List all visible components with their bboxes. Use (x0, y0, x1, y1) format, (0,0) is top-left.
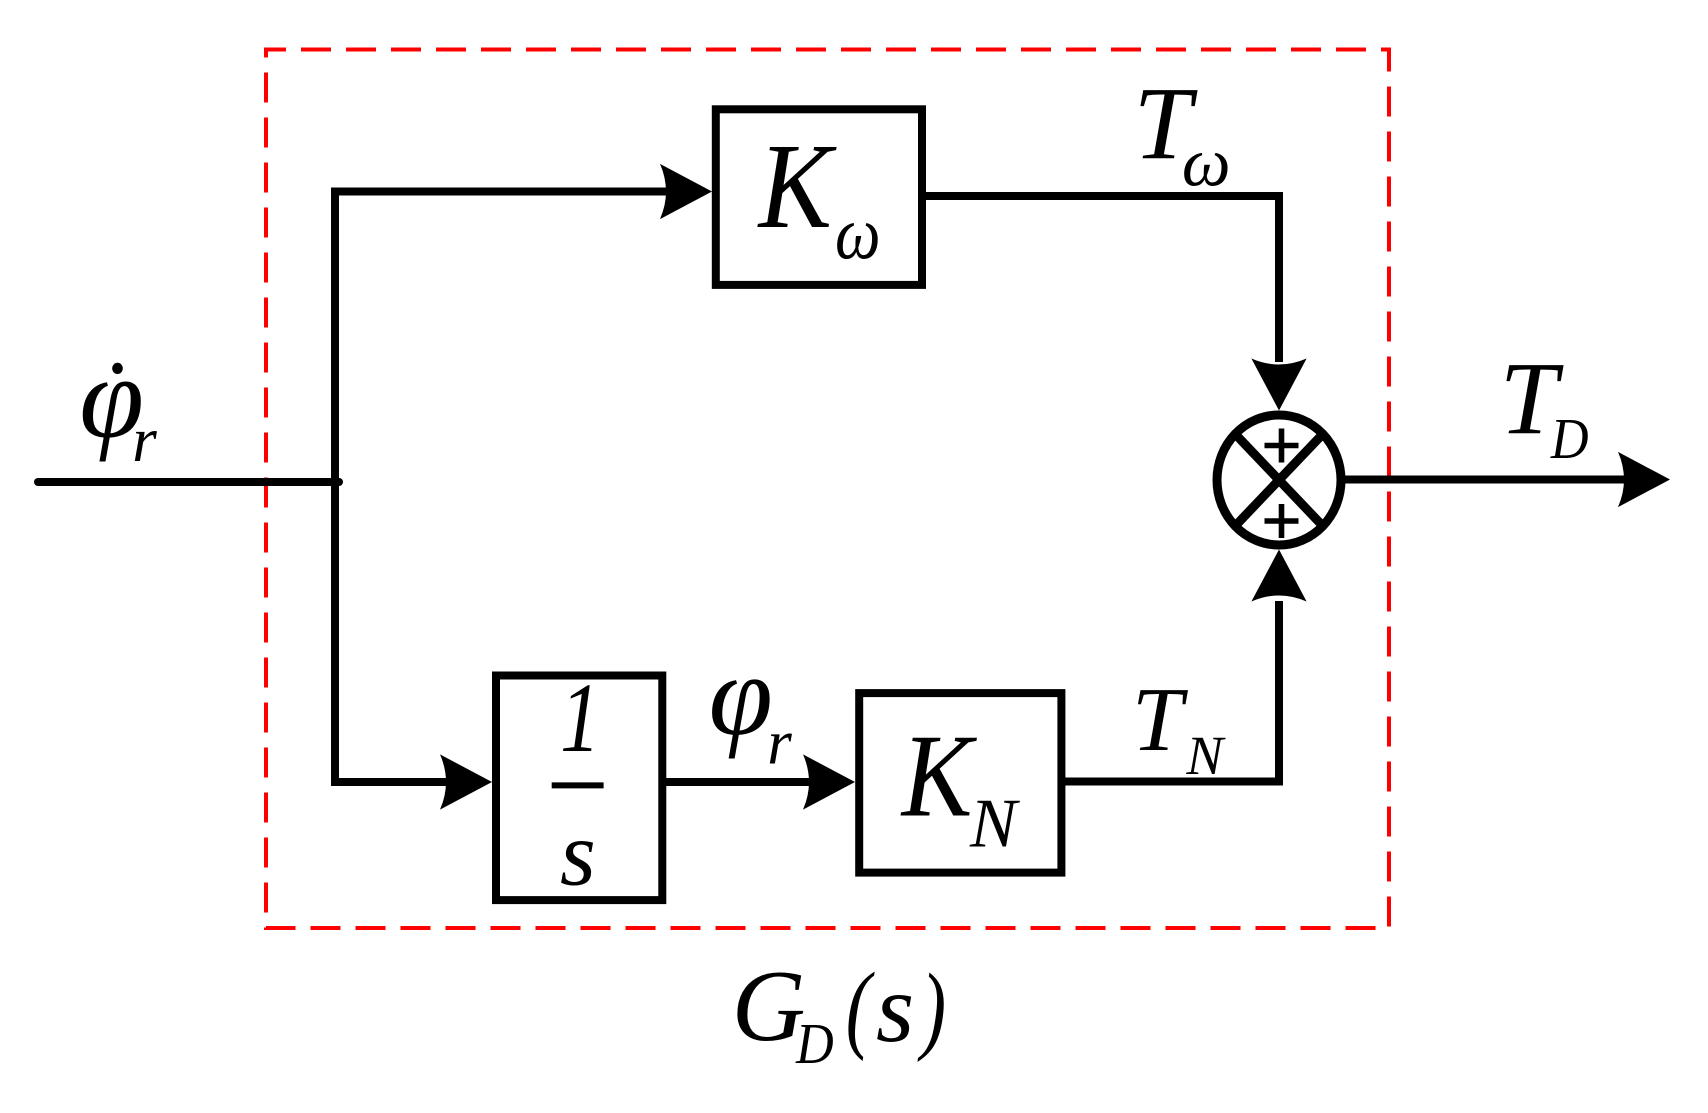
svg-text:T: T (1132, 669, 1188, 770)
arrowhead into K_N (803, 754, 855, 809)
svg-text:s: s (560, 802, 596, 904)
svg-text:K: K (900, 711, 977, 842)
svg-text:N: N (1185, 725, 1226, 786)
svg-text:N: N (969, 785, 1020, 862)
svg-text:r: r (767, 708, 792, 778)
wire: output T_D (1345, 476, 1624, 484)
arrowhead up into summing junction (1251, 550, 1306, 602)
svg-text:D: D (795, 1011, 834, 1075)
svg-text:): ) (917, 954, 946, 1063)
wire: 1/s output phi_r to K_N (666, 778, 809, 786)
svg-text:s: s (876, 955, 914, 1063)
svg-text:G: G (732, 950, 806, 1063)
summing junction circle (1217, 415, 1341, 545)
arrowhead into 1/s (440, 754, 492, 809)
block 1/s integrator (496, 676, 662, 901)
plus sign top (1265, 429, 1299, 463)
arrowhead output (1618, 452, 1670, 507)
block K_omega (716, 109, 922, 285)
plus sign bottom (1265, 504, 1299, 538)
wire: K_N output T_N up into summing junction (1065, 601, 1279, 782)
arrowhead down into summing junction (1251, 359, 1306, 411)
wire: branch node vertical with horizontals to K_omega and to 1/s (335, 192, 666, 783)
svg-text:r: r (132, 405, 157, 475)
svg-text:φ: φ (709, 632, 773, 760)
wire: K_omega output to summing junction (down) (922, 196, 1279, 362)
svg-text:K: K (757, 120, 837, 255)
svg-text:ω: ω (835, 193, 881, 276)
block K_N (859, 693, 1061, 873)
svg-text:(: ( (846, 953, 875, 1062)
arrowhead into K_omega (660, 164, 712, 219)
svg-text:1: 1 (560, 662, 600, 774)
X cross inside summing junction (1235, 434, 1323, 526)
svg-text:ω: ω (1182, 124, 1231, 200)
wire: input phi_dot_r (38, 478, 339, 486)
dashed boundary box of G_D(s) (266, 50, 1389, 929)
svg-text:D: D (1550, 406, 1589, 470)
